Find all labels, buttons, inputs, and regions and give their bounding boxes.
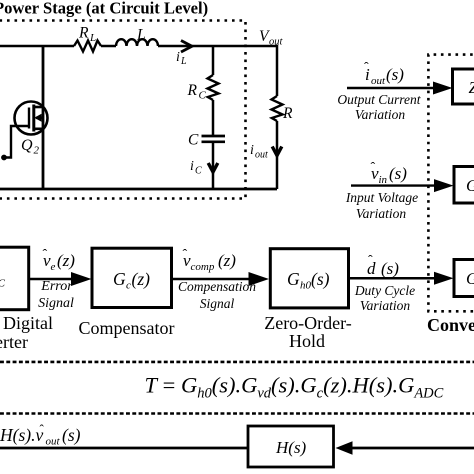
power stage dotted box xyxy=(0,21,246,199)
svg-text:in: in xyxy=(379,174,388,186)
arrow input voltage into G block xyxy=(351,184,437,186)
svg-text:C: C xyxy=(188,132,199,149)
svg-text:i: i xyxy=(250,143,254,158)
arrow output current into Z block xyxy=(347,87,436,89)
label R_L xyxy=(78,25,96,45)
svg-text:(s): (s) xyxy=(381,259,399,278)
block G_c(z) compensator xyxy=(92,248,172,307)
svg-text:C: C xyxy=(199,90,207,102)
wire Q2 drain vertical xyxy=(42,46,45,189)
block Z_o(s) xyxy=(453,69,474,104)
svg-text:i: i xyxy=(176,50,180,65)
label Error Signal xyxy=(38,279,74,311)
label v_in(s) hat xyxy=(371,161,408,187)
arrow i_C current xyxy=(208,163,218,172)
capacitor C xyxy=(202,136,226,142)
svg-text:Signal: Signal xyxy=(38,296,74,311)
svg-text:i: i xyxy=(190,159,194,174)
wire R branch top xyxy=(276,45,279,96)
resistor R_L xyxy=(74,41,101,52)
svg-text:Power Stage (at Circuit Level): Power Stage (at Circuit Level) xyxy=(0,0,208,18)
svg-text:2: 2 xyxy=(34,145,40,157)
svg-text:G: G xyxy=(466,269,474,288)
svg-text:(z): (z) xyxy=(57,251,75,270)
svg-text:out: out xyxy=(255,150,268,161)
svg-text:Variation: Variation xyxy=(356,206,407,221)
wire feedback left of H block xyxy=(0,447,248,450)
svg-text:R: R xyxy=(187,82,198,99)
label R xyxy=(282,105,293,122)
inductor L xyxy=(116,39,158,46)
arrow compensation signal Gc to Gh0 xyxy=(173,278,252,281)
dashed separator line lower xyxy=(0,412,474,415)
svg-text:ˆ: ˆ xyxy=(40,422,45,437)
svg-text:Error: Error xyxy=(40,279,73,294)
wire feedback right of H block xyxy=(351,447,474,450)
resistor R xyxy=(272,96,283,121)
label C xyxy=(188,132,199,149)
label v_comp(z) hat xyxy=(183,248,237,274)
svg-text:G: G xyxy=(466,176,474,195)
svg-text:H(s): H(s) xyxy=(275,438,307,457)
svg-text:Output Current: Output Current xyxy=(337,92,421,107)
svg-text:Hold: Hold xyxy=(289,331,325,351)
wire R_C branch top xyxy=(212,46,215,75)
svg-text:R: R xyxy=(282,105,293,122)
wire R_C to C xyxy=(212,100,215,135)
svg-text:C: C xyxy=(195,166,202,177)
label Output Current Variation xyxy=(337,92,421,122)
label Compensation Signal xyxy=(178,279,256,311)
wire R to bottom with current arrow xyxy=(276,121,279,189)
wire C to bottom with current arrow xyxy=(212,142,215,189)
svg-text:L: L xyxy=(89,32,96,44)
label i_out xyxy=(250,143,268,161)
svg-text:Compensator: Compensator xyxy=(79,318,175,338)
node gate junction dot xyxy=(1,155,7,161)
label Analog to Digital Converter xyxy=(0,313,53,352)
svg-text:Variation: Variation xyxy=(360,298,411,313)
wire top rail xyxy=(0,45,277,48)
label d(s) hat xyxy=(367,254,399,279)
arrow duty cycle Gh0 to Gvd xyxy=(350,277,437,280)
svg-text:G: G xyxy=(287,269,300,289)
wire gate lead xyxy=(3,126,29,158)
arrow i_out current xyxy=(272,147,282,156)
label L xyxy=(136,27,146,44)
svg-text:Z: Z xyxy=(469,78,474,97)
svg-text:(z): (z) xyxy=(132,269,151,289)
block G_ADC analog to digital converter xyxy=(0,247,29,310)
svg-text:Signal: Signal xyxy=(200,296,235,311)
svg-text:Variation: Variation xyxy=(355,107,406,122)
node V_out label xyxy=(259,28,284,48)
label v_e(z) hat xyxy=(43,248,76,274)
svg-text:Converter: Converter xyxy=(427,315,474,335)
svg-text:ˆ: ˆ xyxy=(43,248,48,263)
svg-text:(s): (s) xyxy=(311,269,330,289)
svg-text:G: G xyxy=(113,269,126,289)
label Zero-Order-Hold xyxy=(264,313,352,351)
label i_L xyxy=(176,50,187,67)
svg-text:ˆ: ˆ xyxy=(364,61,369,76)
svg-text:(z): (z) xyxy=(218,251,236,270)
svg-text:L: L xyxy=(180,56,187,67)
svg-text:c: c xyxy=(126,280,131,292)
svg-text:R: R xyxy=(78,25,89,42)
label Q2 xyxy=(21,137,40,157)
svg-text:e: e xyxy=(51,261,56,273)
arrow i_L current chevron xyxy=(181,41,192,53)
svg-text:Zero-Order-: Zero-Order- xyxy=(264,313,352,333)
block G_vd(s) xyxy=(454,260,474,297)
svg-text:ˆ: ˆ xyxy=(371,161,376,176)
svg-text:Input Voltage: Input Voltage xyxy=(345,190,418,205)
label R_C xyxy=(187,82,207,102)
svg-text:comp: comp xyxy=(191,261,215,273)
svg-text:Duty Cycle: Duty Cycle xyxy=(354,283,415,298)
svg-text:(s): (s) xyxy=(386,65,404,84)
svg-text:(s): (s) xyxy=(389,164,407,183)
svg-text:Analog to Digital: Analog to Digital xyxy=(0,313,53,333)
arrow error signal ADC to Gc xyxy=(29,278,74,281)
svg-text:h0: h0 xyxy=(300,280,312,292)
svg-text:(s): (s) xyxy=(62,425,81,445)
block G_vg(s) xyxy=(454,167,474,204)
label H(s).v_out(s) xyxy=(0,422,81,448)
dashed separator line upper xyxy=(0,361,474,364)
svg-text:ADC: ADC xyxy=(0,278,6,290)
transistor Q2 xyxy=(15,102,48,135)
svg-text:T = Gh0(s).Gvd(s).Gc(z).H(s).G: T = Gh0(s).Gvd(s).Gc(z).H(s).GADC xyxy=(145,373,444,402)
label Input Voltage Variation xyxy=(345,190,418,221)
svg-text:Compensation: Compensation xyxy=(178,279,256,294)
converter dotted box xyxy=(428,55,474,312)
arrow into H block from right xyxy=(336,441,353,455)
svg-text:ˆ: ˆ xyxy=(368,254,373,269)
svg-text:out: out xyxy=(371,75,386,87)
wire bottom rail xyxy=(0,188,277,191)
svg-text:Q: Q xyxy=(21,137,33,154)
resistor R_C xyxy=(208,75,219,100)
svg-text:ˆ: ˆ xyxy=(183,248,188,263)
block G_h0(s) zero-order-hold xyxy=(270,249,348,308)
svg-text:Converter: Converter xyxy=(0,332,28,352)
svg-text:out: out xyxy=(46,436,61,448)
label i_out(s) hat xyxy=(364,61,404,88)
label Duty Cycle Variation xyxy=(354,283,415,313)
svg-text:H(s).v: H(s).v xyxy=(0,425,43,445)
svg-text:L: L xyxy=(136,27,146,44)
label i_C xyxy=(190,159,202,177)
block H(s) sensor xyxy=(248,426,334,467)
